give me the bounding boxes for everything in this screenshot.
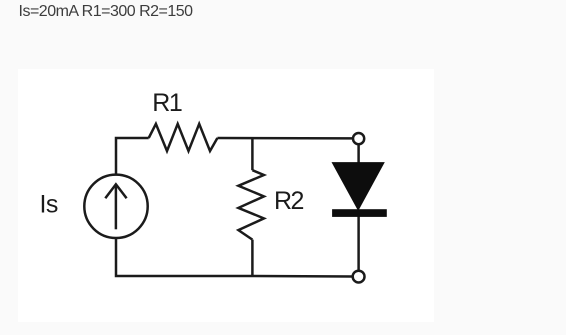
node B terminal circle xyxy=(353,271,365,283)
svg-text:Is: Is xyxy=(40,190,58,218)
wire diode to node B xyxy=(357,217,360,271)
wire bottom-right to node B xyxy=(253,275,353,278)
wire node A to diode xyxy=(357,145,360,163)
wire middle branch bottom xyxy=(251,240,254,276)
problem statement text xyxy=(19,3,193,21)
svg-text:R1: R1 xyxy=(152,89,182,117)
resistor R1 xyxy=(149,124,218,151)
wire middle branch top xyxy=(251,138,254,170)
schematic white canvas xyxy=(18,69,434,322)
wire left-bottom xyxy=(116,237,253,276)
diode D1 triangle xyxy=(332,162,385,211)
node A terminal circle xyxy=(353,133,364,144)
resistor R2 xyxy=(238,170,264,239)
wire top-left horizontal xyxy=(116,138,149,174)
wire top-right horizontal to node A xyxy=(217,137,352,140)
svg-text:R2: R2 xyxy=(274,187,304,215)
current source Is xyxy=(84,175,147,238)
diode D1 cathode bar xyxy=(332,209,387,217)
